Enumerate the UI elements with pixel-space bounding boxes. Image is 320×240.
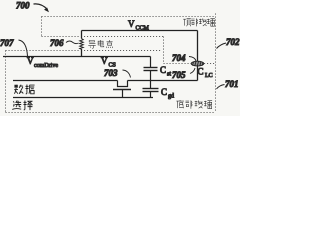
label 706: [50, 38, 79, 48]
right edge glass dashed line (702/701): [215, 14, 217, 113]
svg-text:700: 700: [16, 1, 30, 11]
conductive dot 706 (spring symbol between glasses): [80, 31, 84, 58]
wire VCCM (top glass common electrode): [82, 30, 198, 32]
text top glass (Chinese): [183, 18, 215, 26]
bottom glass outline (dashed): [6, 51, 216, 113]
svg-text:gd: gd: [168, 94, 174, 100]
wire select line: [13, 97, 153, 99]
svg-text:V: V: [27, 56, 34, 66]
label 707: [0, 38, 28, 56]
label 704: [172, 53, 196, 63]
svg-text:705: 705: [172, 70, 186, 80]
svg-text:CCM: CCM: [136, 26, 150, 32]
wire VcomDrive (bottom glass common trace): [3, 56, 151, 58]
net label VCCM: [128, 19, 150, 32]
svg-text:C: C: [198, 67, 204, 77]
svg-text:C: C: [161, 87, 167, 97]
text select (Chinese): [12, 101, 32, 111]
svg-text:LC: LC: [205, 73, 213, 79]
svg-text:comDrive: comDrive: [34, 63, 58, 69]
capacitor Cst: [144, 57, 172, 81]
label 701: [217, 79, 239, 89]
net label VCS: [101, 56, 116, 69]
wire pixel node: [128, 80, 198, 82]
top glass outline (dashed): [42, 17, 216, 64]
text data (Chinese): [14, 85, 34, 94]
svg-text:701: 701: [225, 79, 239, 89]
label 700: [16, 1, 49, 13]
text conductive dot (Chinese): [88, 40, 112, 48]
capacitor Cgd: [143, 81, 175, 100]
text bottom glass (Chinese): [176, 100, 212, 109]
svg-text:st: st: [167, 72, 171, 78]
svg-text:702: 702: [226, 37, 240, 47]
label 703: [104, 68, 131, 78]
wire data line: [13, 80, 118, 82]
capacitor CLC (liquid crystal): [191, 31, 212, 81]
label 702: [217, 37, 241, 49]
svg-text:706: 706: [50, 38, 64, 48]
label 705: [172, 68, 195, 80]
svg-text:707: 707: [0, 38, 14, 48]
svg-text:V: V: [101, 56, 108, 66]
svg-text:V: V: [128, 19, 135, 29]
net label VcomDrive: [27, 56, 58, 69]
svg-text:703: 703: [104, 68, 118, 78]
svg-text:C: C: [160, 65, 166, 75]
svg-text:704: 704: [172, 53, 186, 63]
transistor Q 703 (TFT): [113, 81, 131, 98]
